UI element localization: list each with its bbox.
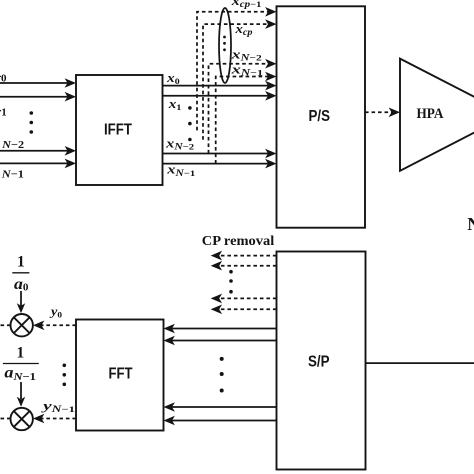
svg-text:P/S: P/S bbox=[309, 108, 331, 125]
label xcp bbox=[234, 21, 253, 37]
gain denominator aN-1 bbox=[4, 364, 35, 382]
P/S label bbox=[309, 108, 331, 125]
CP removal dashed wire 1 bbox=[219, 255, 277, 257]
S/P to FFT wire 4 bbox=[164, 416, 277, 426]
CP removal dashed wire 4 bbox=[219, 308, 277, 310]
output wire from M2 bbox=[0, 418, 11, 420]
multiplier M2 bbox=[11, 408, 33, 430]
wire yN-1 from FFT to M2 bbox=[41, 418, 76, 420]
svg-text:0: 0 bbox=[1, 73, 7, 85]
output wire x1 bbox=[163, 91, 277, 101]
output wire xN-1 bbox=[163, 159, 277, 169]
yN-1 label bbox=[40, 398, 75, 414]
gain denominator a0 bbox=[14, 276, 28, 294]
FFT label bbox=[109, 366, 133, 383]
label xN-2 bbox=[165, 135, 194, 151]
svg-text:CP removal: CP removal bbox=[202, 234, 275, 249]
label xN-2 copy bbox=[230, 47, 261, 63]
multiplier ellipsis dots bbox=[63, 364, 67, 387]
label xcp-1 bbox=[231, 0, 262, 9]
CP removal dashed wire 2 bbox=[219, 265, 277, 267]
S/P label bbox=[308, 353, 330, 370]
gain fraction bar 1 bbox=[12, 272, 29, 274]
output wire from M1 bbox=[0, 324, 11, 326]
svg-text:N: N bbox=[467, 214, 474, 234]
svg-text:FFT: FFT bbox=[109, 366, 133, 383]
S/P to FFT wire 2 bbox=[164, 336, 277, 346]
gain arrow into M2 bbox=[17, 382, 25, 407]
IFFT label bbox=[104, 122, 132, 139]
HPA amplifier bbox=[400, 59, 474, 171]
CP removal dashed wire 3 bbox=[219, 297, 277, 299]
CP dashed wire 3 bbox=[209, 64, 269, 154]
CP dashed wire 1 bbox=[197, 12, 269, 131]
input wire XN-1 bbox=[0, 159, 76, 169]
CP dashed wire 2 bbox=[203, 24, 269, 140]
input label fragment N-2 bbox=[1, 139, 25, 151]
label x1 bbox=[168, 96, 182, 112]
IFFT block bbox=[76, 75, 163, 185]
CP dashed wire 4 bbox=[216, 77, 269, 164]
input wire X1 bbox=[0, 92, 76, 102]
input wire X0 bbox=[0, 78, 76, 88]
input wire XN-2 bbox=[0, 146, 76, 156]
gain fraction bar 2 bbox=[3, 363, 39, 365]
output wire xN-2 bbox=[163, 149, 277, 159]
svg-text:1: 1 bbox=[1, 106, 7, 118]
CP removal label bbox=[202, 234, 275, 249]
svg-text:N−1: N−1 bbox=[1, 168, 24, 180]
CP group ellipse bbox=[219, 8, 231, 83]
P/S block bbox=[277, 6, 366, 227]
S/P to FFT ellipsis dots bbox=[220, 357, 224, 393]
label x0 bbox=[166, 70, 180, 86]
output wire x0 bbox=[163, 81, 277, 91]
input ellipsis dots bbox=[30, 111, 34, 134]
svg-text:HPA: HPA bbox=[417, 106, 444, 122]
dashed wire P/S to HPA bbox=[365, 111, 392, 113]
svg-text:N−2: N−2 bbox=[1, 139, 25, 151]
gain numerator 1 of 1/a0 bbox=[17, 254, 25, 271]
HPA label bbox=[417, 106, 444, 122]
clipped letter N bbox=[467, 214, 474, 234]
gain numerator 1 of 1/aN-1 bbox=[17, 345, 25, 362]
S/P to FFT wire 3 bbox=[164, 402, 277, 412]
S/P block bbox=[277, 252, 366, 470]
CP ellipse dots bbox=[223, 36, 226, 52]
input label fragment 0 bbox=[0, 73, 7, 85]
S/P to FFT wire 1 bbox=[164, 324, 277, 334]
multiplier M1 bbox=[11, 314, 33, 336]
svg-text:IFFT: IFFT bbox=[104, 122, 132, 139]
svg-text:1: 1 bbox=[17, 345, 25, 362]
svg-text:xcp−1: xcp−1 bbox=[231, 0, 262, 9]
svg-text:1: 1 bbox=[17, 254, 25, 271]
label xN-1 copy bbox=[230, 61, 263, 77]
svg-text:S/P: S/P bbox=[308, 353, 330, 370]
FFT block bbox=[76, 320, 164, 431]
wire y0 from FFT to M1 bbox=[41, 324, 76, 326]
input label fragment 1 bbox=[0, 106, 7, 118]
channel wire bbox=[366, 362, 474, 364]
output ellipsis dots bbox=[188, 106, 192, 141]
CP removal ellipsis dots bbox=[229, 270, 233, 294]
y0 label bbox=[49, 303, 62, 319]
gain arrow into M1 bbox=[17, 291, 25, 313]
input label fragment N-1 bbox=[1, 168, 24, 180]
label xN-1 bbox=[166, 162, 195, 178]
